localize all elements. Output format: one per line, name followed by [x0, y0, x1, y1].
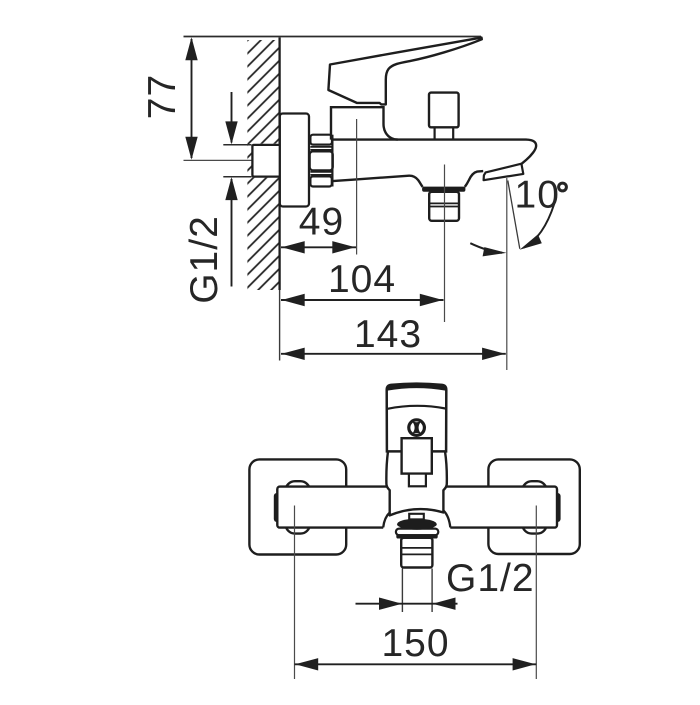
svg-text:143: 143 — [354, 313, 422, 356]
svg-text:10: 10 — [515, 174, 560, 217]
svg-text:G1/2: G1/2 — [183, 215, 226, 304]
svg-text:G1/2: G1/2 — [446, 557, 535, 600]
svg-text:49: 49 — [299, 200, 344, 243]
svg-text:150: 150 — [381, 622, 449, 665]
svg-text:77: 77 — [141, 74, 184, 119]
svg-text:104: 104 — [328, 258, 396, 301]
